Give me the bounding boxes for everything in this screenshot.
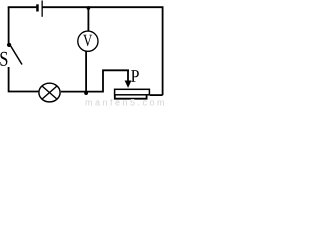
svg-text:manfen5.com: manfen5.com	[85, 97, 165, 106]
